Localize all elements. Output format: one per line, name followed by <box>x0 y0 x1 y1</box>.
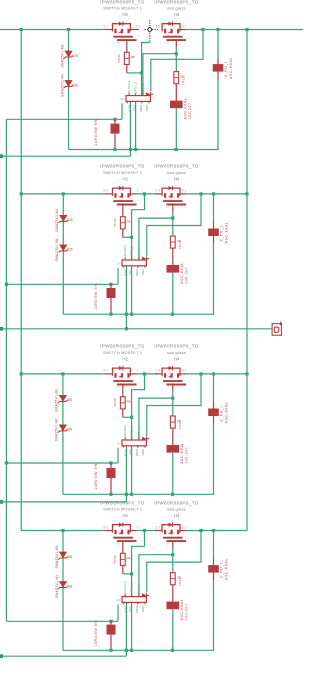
pin wire drain Q7 <box>105 530 113 532</box>
lead wire C3 top <box>213 402 215 409</box>
svg-text:SMAZ5V1-ML: SMAZ5V1-ML <box>55 574 59 598</box>
wire cap chain bottom <box>213 243 215 314</box>
wire H1-H2 drop <box>129 150 131 157</box>
wire source to driver <box>151 30 203 92</box>
svg-text:OUT_1: OUT_1 <box>137 248 141 259</box>
svg-text:S 1: S 1 <box>182 369 187 373</box>
pin wire gate Q2 <box>175 41 177 47</box>
wire mid drop to driver <box>132 531 145 597</box>
wire gate2 to driver <box>139 555 173 597</box>
svg-text:D 1: D 1 <box>104 24 109 28</box>
svg-text:SWITCH MOSFET 1: SWITCH MOSFET 1 <box>103 170 142 175</box>
lead wire C2 bottom <box>213 236 215 243</box>
svg-text:ASC-K6AL: ASC-K6AL <box>229 57 233 79</box>
junction gate net <box>130 416 133 419</box>
svg-text:PWM: PWM <box>135 606 139 614</box>
wire mid node <box>137 373 159 375</box>
svg-text:D5: D5 <box>68 555 72 559</box>
lead wire C3 bottom <box>213 416 215 423</box>
svg-text:D 1: D 1 <box>104 189 109 193</box>
wire clamp to H1 <box>172 273 174 315</box>
svg-text:D5: D5 <box>68 218 72 222</box>
boot diode U1 <box>146 92 153 96</box>
svg-text:PWM: PWM <box>139 105 143 113</box>
pin wire source Q2 <box>180 29 186 31</box>
svg-text:D6: D6 <box>68 584 72 588</box>
svg-text:GATE_2: GATE_2 <box>130 246 134 258</box>
svg-text:10R0/5W 5%: 10R0/5W 5% <box>94 283 98 310</box>
transistor Q8 <box>162 523 187 542</box>
svg-text:H4: H4 <box>174 177 180 182</box>
junction gate net <box>130 236 133 239</box>
svg-text:TP30: TP30 <box>113 218 117 227</box>
wire zener chain <box>62 531 64 651</box>
svg-text:2 3: 2 3 <box>155 189 160 193</box>
wire zener chain <box>68 30 70 150</box>
svg-text:100-207: 100-207 <box>185 267 189 284</box>
wire source to driver <box>147 374 201 436</box>
junction cap tap <box>216 28 219 31</box>
wire H3 supply <box>6 462 118 464</box>
wire cap chain top <box>213 374 215 402</box>
junction bus-right <box>245 192 248 195</box>
svg-text:IPW60R099P6_TO: IPW60R099P6_TO <box>154 164 199 169</box>
junction RP top <box>109 461 112 464</box>
wire H3 supply <box>6 620 118 622</box>
resistor R1 <box>124 52 129 64</box>
svg-text:SWITCH MOSFET 1: SWITCH MOSFET 1 <box>103 350 142 355</box>
resistor R7 <box>120 397 125 409</box>
gate driver U3 <box>122 438 146 448</box>
junction bus-left drain <box>20 372 23 375</box>
svg-text:H4: H4 <box>174 357 180 362</box>
wire H1-H2 drop <box>125 314 127 329</box>
svg-text:D5: D5 <box>73 54 77 58</box>
junction RP top <box>109 283 112 286</box>
svg-text:GND: GND <box>145 105 149 111</box>
pad module pin <box>0 327 3 331</box>
wire mid node <box>137 193 159 195</box>
svg-text:10R0/5W 5%: 10R0/5W 5% <box>94 463 98 490</box>
svg-text:sad glass: sad glass <box>167 170 186 175</box>
junction a H1 <box>129 148 132 151</box>
pin wire gate Q6 <box>172 385 174 391</box>
pad module pin <box>0 654 3 658</box>
svg-text:IPW60R099P6_TO: IPW60R099P6_TO <box>100 164 145 169</box>
wire cap chain top <box>213 531 215 559</box>
wire mid node <box>137 530 159 532</box>
junction b H1 <box>134 148 137 151</box>
junction a H1 <box>125 649 128 652</box>
svg-text:SOURCE: SOURCE <box>127 80 131 94</box>
pin wire source Q4 <box>180 193 186 195</box>
svg-text:100-207: 100-207 <box>185 603 189 620</box>
svg-text:D6: D6 <box>68 248 72 252</box>
svg-text:ASC-K6AL: ASC-K6AL <box>180 262 184 284</box>
svg-text:100-207: 100-207 <box>185 447 189 464</box>
svg-text:GND: GND <box>141 449 145 455</box>
svg-text:C_PU_1: C_PU_1 <box>220 225 224 241</box>
bus supply left <box>5 119 7 621</box>
wire IC pin to H1 b <box>135 103 137 149</box>
junction gate2 <box>175 52 178 55</box>
wire H3 supply <box>6 283 118 285</box>
wire clamp to H1 <box>175 108 177 149</box>
pad module pin <box>0 154 3 158</box>
wire gate2 net <box>172 548 174 573</box>
resistor R8 <box>170 416 175 428</box>
svg-text:sad glass: sad glass <box>167 6 186 11</box>
wire gate2 net <box>172 391 174 416</box>
svg-text:S 1: S 1 <box>182 189 187 193</box>
junction a H1 <box>125 313 128 316</box>
wire H3 stub up <box>117 605 119 622</box>
junction H3 bus <box>5 283 8 286</box>
junction bus-right <box>245 372 248 375</box>
boot diode U2 <box>142 257 149 261</box>
wire H3 stub up <box>121 104 123 120</box>
wire IC pin to H1 b <box>131 604 133 650</box>
junction b H1 <box>130 493 133 496</box>
clamp diode C4a <box>167 602 180 610</box>
resistor R6 10R0/5W <box>107 288 116 298</box>
svg-text:2 3: 2 3 <box>155 24 160 28</box>
wire IC pin to H1 a <box>125 268 127 315</box>
wire gate2 to driver <box>139 398 173 440</box>
svg-text:100-207: 100-207 <box>188 102 192 119</box>
junction bus-left drain <box>20 28 23 31</box>
junction RP top <box>109 620 112 623</box>
clamp diode C3a <box>167 445 180 453</box>
junction R3 H1 <box>113 148 116 151</box>
svg-text:2: 2 <box>137 525 139 529</box>
svg-text:R6: R6 <box>127 556 131 560</box>
wire cap chain bottom <box>217 79 219 150</box>
zener diode D8 <box>58 582 67 590</box>
junction mid node <box>143 192 146 195</box>
svg-text:2 3: 2 3 <box>155 525 160 529</box>
pad module pin <box>0 500 3 504</box>
lead wire C4 bottom <box>213 573 215 580</box>
clamp diode C2a <box>167 265 180 273</box>
wire R3 bottom lead <box>114 134 116 150</box>
wire H1-H2 drop <box>125 650 127 656</box>
svg-text:10R0/5W 5%: 10R0/5W 5% <box>94 620 98 647</box>
junction zener tap <box>67 28 70 31</box>
wire H2 drive input <box>0 501 126 503</box>
svg-text:SOURCE: SOURCE <box>123 425 127 439</box>
wire cap chain top <box>217 30 219 58</box>
junction source drop <box>199 192 202 195</box>
junction clamp H1 <box>171 649 174 652</box>
transistor Q4 <box>162 186 187 205</box>
wire mid drop to driver <box>142 41 150 96</box>
junction bus-left drain <box>20 192 23 195</box>
transistor Q7 <box>112 523 137 542</box>
wire source row <box>186 373 247 375</box>
wire drain row left <box>21 530 104 532</box>
capacitor C1 <box>213 64 224 72</box>
wire R9 bottom lead <box>110 478 112 494</box>
junction b H1 <box>130 649 133 652</box>
wire R3 top lead <box>114 119 116 123</box>
junction R9 H1 <box>109 493 112 496</box>
junction b H1 <box>130 313 133 316</box>
resistor R2 <box>174 72 179 84</box>
pin wire source Q8 <box>180 530 186 532</box>
boot diode U3 <box>142 437 149 441</box>
wire gate2 to driver <box>139 218 173 260</box>
gate driver U1 <box>126 93 150 103</box>
wire cap chain bottom <box>213 423 215 494</box>
junction gate2 <box>171 553 174 556</box>
svg-text:PWM: PWM <box>135 269 139 277</box>
lead wire C1 top <box>217 58 219 65</box>
svg-text:1N: 1N <box>117 261 121 265</box>
wire drain row left <box>0 29 105 31</box>
junction source drop <box>201 28 204 31</box>
lead wire C2 top <box>213 222 215 229</box>
pin wire gate Q8 <box>172 542 174 548</box>
boot diode U4 <box>142 593 149 597</box>
svg-text:D 1: D 1 <box>104 369 109 373</box>
junction zener tap <box>61 529 64 532</box>
junction bus-right <box>245 28 248 31</box>
wire source row <box>186 29 303 31</box>
wire source to driver <box>147 194 201 256</box>
wire source row <box>186 193 247 195</box>
svg-text:SWITCH MOSFET 1: SWITCH MOSFET 1 <box>103 6 142 11</box>
connector X1 gate drive input <box>272 322 282 336</box>
svg-text:1N: 1N <box>117 441 121 445</box>
svg-text:TP30: TP30 <box>113 398 117 407</box>
wire clamp to H1 <box>172 453 174 495</box>
wire H3 stub up <box>117 448 119 463</box>
svg-text:SOURCE: SOURCE <box>123 245 127 259</box>
svg-text:TP31: TP31 <box>182 76 186 85</box>
wire H2 drive input <box>0 655 126 657</box>
bus tap dotted <box>145 20 159 41</box>
svg-text:OUT_1: OUT_1 <box>137 428 141 439</box>
wire R1 to driver <box>126 65 128 73</box>
junction zener tap <box>61 372 64 375</box>
wire H1 gnd row <box>63 313 214 315</box>
wire R7 to driver <box>122 409 124 417</box>
junction source drop <box>199 372 202 375</box>
svg-text:2: 2 <box>137 189 139 193</box>
resistor R3 10R0/5W <box>111 124 120 134</box>
wire zener chain <box>62 194 64 314</box>
svg-text:SMAZ5V1-ML: SMAZ5V1-ML <box>55 208 59 232</box>
junction H3 bus <box>5 461 8 464</box>
junction clamp H1 <box>174 148 177 151</box>
capacitor C4 <box>208 565 219 573</box>
transistor Q2 <box>162 22 187 41</box>
wire IC pin to H1 b <box>131 268 133 315</box>
svg-text:IPW60R099P6_TO: IPW60R099P6_TO <box>100 500 145 505</box>
bus left drain chain <box>20 30 22 531</box>
wire clamp to H1 <box>172 609 174 650</box>
svg-text:OUT_1: OUT_1 <box>137 584 141 595</box>
svg-text:ASC-K6AL: ASC-K6AL <box>225 558 229 580</box>
svg-text:OUT_1: OUT_1 <box>141 83 145 94</box>
wire H3 supply <box>6 118 122 120</box>
transistor Q3 <box>112 186 137 205</box>
wire H1 gnd row <box>63 493 214 495</box>
wire mid drop to driver <box>132 374 145 440</box>
svg-text:ASC-K6AL: ASC-K6AL <box>184 98 188 120</box>
svg-text:IPW60R099P6_TO: IPW60R099P6_TO <box>100 344 145 349</box>
pin wire drain Q1 <box>105 29 113 31</box>
svg-text:H2: H2 <box>122 357 128 362</box>
wire H1 gnd row <box>63 649 214 651</box>
zener diode D6 <box>58 425 67 433</box>
svg-text:TP30: TP30 <box>113 555 117 564</box>
resistor R4 <box>120 217 125 229</box>
junction source drop <box>199 529 202 532</box>
wire gate2 to driver <box>143 54 176 96</box>
svg-text:GATE_2: GATE_2 <box>134 81 138 93</box>
junction cap tap <box>212 529 215 532</box>
wire R11 to clamp <box>172 585 174 602</box>
gate driver U2 <box>122 258 146 268</box>
junction gate net <box>130 572 133 575</box>
wire cap chain bottom <box>213 580 215 650</box>
junction gate2 <box>171 217 174 220</box>
svg-text:SOURCE: SOURCE <box>123 581 127 595</box>
wire mid drop to driver <box>132 194 145 260</box>
svg-text:H2: H2 <box>122 177 128 182</box>
zener diode D1 <box>64 51 73 59</box>
svg-text:D 1: D 1 <box>104 525 109 529</box>
gate driver U4 <box>122 594 146 604</box>
wire IC pin to H1 b <box>131 448 133 495</box>
svg-text:SMAZ5V1-ML: SMAZ5V1-ML <box>55 388 59 412</box>
wire R6 bottom lead <box>110 298 112 314</box>
wire H1 gnd row <box>69 149 219 151</box>
zener diode D4 <box>59 245 68 253</box>
svg-text:C_PU_1: C_PU_1 <box>220 562 224 578</box>
svg-text:ASC-K6AL: ASC-K6AL <box>180 599 184 621</box>
svg-text:H2: H2 <box>122 12 128 17</box>
wire H2 drive input <box>0 328 272 330</box>
svg-text:ASC-K6AL: ASC-K6AL <box>180 442 184 464</box>
svg-text:TP31: TP31 <box>178 241 182 250</box>
junction cap tap <box>212 192 215 195</box>
svg-text:2: 2 <box>137 369 139 373</box>
transistor Q1 <box>112 22 137 41</box>
svg-text:2 3: 2 3 <box>135 24 140 28</box>
svg-text:GATE_2: GATE_2 <box>130 426 134 438</box>
svg-text:SMAZ5V1-ML: SMAZ5V1-ML <box>55 418 59 442</box>
svg-text:IPW60R099P6_TO: IPW60R099P6_TO <box>100 0 145 4</box>
svg-text:SMAZ5V1-ML: SMAZ5V1-ML <box>60 73 64 97</box>
wire R12 top lead <box>110 621 112 624</box>
pin wire drain Q8 <box>155 530 162 532</box>
bus right source chain <box>246 30 248 531</box>
wire R9 top lead <box>110 463 112 468</box>
svg-text:C_PU_1: C_PU_1 <box>224 61 228 77</box>
pin wire gate Q4 <box>172 205 174 211</box>
svg-text:IPW60R099P6_TO: IPW60R099P6_TO <box>154 344 199 349</box>
resistor R10 <box>120 553 125 565</box>
resistor R5 <box>170 236 175 248</box>
pin wire source Q1 <box>130 29 139 31</box>
wire R5 to clamp <box>172 248 174 265</box>
wire IC pin to H1 a <box>125 604 127 650</box>
resistor R9 10R0/5W <box>107 468 116 478</box>
resistor R11 <box>170 573 175 585</box>
svg-text:H4: H4 <box>174 513 180 518</box>
svg-text:TP30: TP30 <box>117 54 121 63</box>
svg-text:sad glass: sad glass <box>167 350 186 355</box>
svg-text:SMAZ5V1-ML: SMAZ5V1-ML <box>55 238 59 262</box>
junction mid node <box>143 529 146 532</box>
wire R10 to driver <box>122 566 124 574</box>
svg-text:R6: R6 <box>127 400 131 404</box>
wire H3 stub up <box>117 268 119 284</box>
svg-text:GND: GND <box>141 269 145 275</box>
wire drain row left <box>21 193 104 195</box>
pin wire gate Q3 <box>122 205 124 217</box>
svg-text:R6: R6 <box>127 220 131 224</box>
svg-text:H4: H4 <box>174 12 180 17</box>
svg-text:D6: D6 <box>73 83 77 87</box>
pin wire gate Q7 <box>122 542 124 554</box>
capacitor C3 <box>208 409 219 417</box>
zener diode D3 <box>59 215 68 223</box>
wire R12 bottom lead <box>110 635 112 651</box>
svg-text:ASC-K6AL: ASC-K6AL <box>225 221 229 243</box>
resistor R12 10R0/5W <box>107 625 116 635</box>
junction zener tap <box>62 192 65 195</box>
svg-text:IPW60R099P6_TO: IPW60R099P6_TO <box>154 500 199 505</box>
junction clamp H1 <box>171 313 174 316</box>
transistor Q5 <box>112 366 137 385</box>
svg-text:GATE_2: GATE_2 <box>130 582 134 594</box>
svg-text:TP31: TP31 <box>178 577 182 586</box>
capacitor C2 <box>208 229 219 237</box>
wire source row <box>186 530 247 532</box>
zener diode D2 <box>64 81 73 89</box>
wire H1-H2 drop <box>125 494 127 502</box>
svg-text:PWM: PWM <box>135 449 139 457</box>
junction H2 drop <box>125 327 128 330</box>
zener diode D7 <box>58 552 67 560</box>
wire R2 to clamp <box>175 84 177 101</box>
svg-text:S 1: S 1 <box>182 525 187 529</box>
svg-text:C_PU_1: C_PU_1 <box>220 405 224 421</box>
svg-text:D5: D5 <box>68 398 72 402</box>
junction a H1 <box>125 493 128 496</box>
svg-text:SMAZ5V1-ML: SMAZ5V1-ML <box>55 545 59 569</box>
pin wire gate Q1 <box>126 41 128 53</box>
wire gate2 net <box>175 47 177 72</box>
pin wire drain Q4 <box>155 193 162 195</box>
wire source to driver <box>147 531 201 593</box>
transistor Q6 <box>162 366 187 385</box>
lead wire C4 top <box>213 559 215 566</box>
svg-text:1N: 1N <box>121 97 125 101</box>
svg-text:D6: D6 <box>68 428 72 432</box>
svg-text:10R0/5W 5%: 10R0/5W 5% <box>94 119 98 146</box>
pin wire drain Q6 <box>155 373 162 375</box>
zener diode D5 <box>58 395 67 403</box>
junction gate2 <box>171 397 174 400</box>
svg-text:SMAZ5V1-ML: SMAZ5V1-ML <box>60 44 64 68</box>
junction R6 H1 <box>109 313 112 316</box>
svg-text:R6: R6 <box>131 55 135 59</box>
